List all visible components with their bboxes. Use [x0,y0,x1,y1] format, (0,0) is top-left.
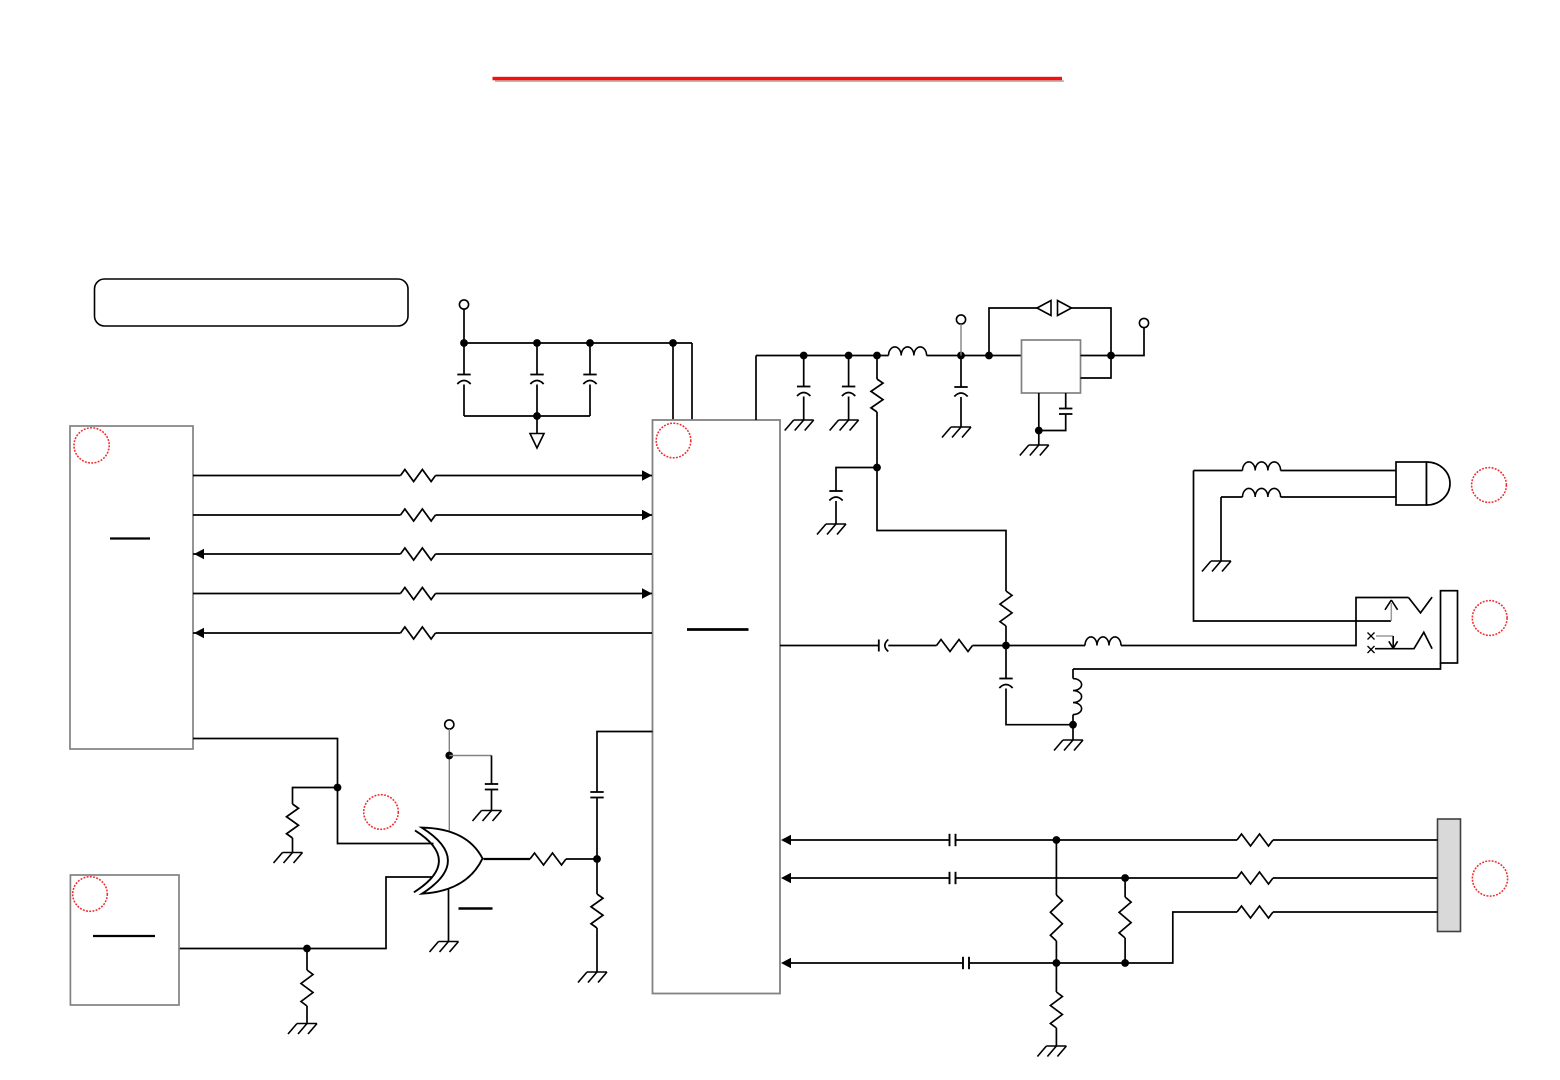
wire [436,514,653,516]
title underline shadow [495,80,1064,82]
wire rail to IC pin [755,356,757,421]
wire [1055,963,1057,992]
red marker circle P1 [1472,861,1507,896]
switch arrow up [1385,600,1398,621]
wire bottom rail [464,415,590,417]
IC U1 [653,420,781,994]
wire [888,645,936,647]
node dot [533,339,541,347]
wire [1124,938,1126,963]
wire [1273,877,1438,879]
wire [491,756,493,785]
wire signal 1 [193,475,401,477]
switch arrow down [1389,636,1398,648]
red marker circle J1 [1472,601,1507,636]
xor gate U5 [414,828,483,894]
wire [1072,725,1074,740]
ground [439,941,459,943]
capacitor C5 [842,386,855,388]
wire [1005,626,1007,646]
wire [306,949,308,971]
wire [803,356,805,387]
node dot [334,784,342,792]
wire signal 2 [193,514,401,516]
wire line3 [790,962,963,964]
U2 label line [110,537,150,539]
resistor R9 [1237,834,1273,846]
wire speaker+ [1194,470,1243,472]
title underline (red) [493,77,1063,81]
jack tip contact [1409,597,1433,613]
node dot A [1002,642,1010,650]
wire [436,593,653,595]
jack ring contact [1375,632,1432,648]
wire [491,790,493,811]
arrowhead into U2 [194,549,204,559]
wire [1220,497,1222,561]
diode D2 [1058,301,1072,316]
wire [973,645,1086,647]
resistor R12 [1050,895,1062,941]
wire [536,416,538,434]
wire [449,755,491,757]
node dot [1053,836,1061,844]
node dot [873,464,881,472]
wire [848,397,850,421]
resistor R12 [401,509,436,521]
wire [1055,840,1057,895]
wire audio out [780,645,879,647]
capacitor C11 [485,783,498,785]
node dot [1069,721,1077,729]
node dot [1035,427,1043,435]
ground [1046,1045,1066,1047]
node dot [669,339,677,347]
wire feedback [1081,356,1112,379]
note box (empty annotation) [95,279,409,326]
red marker circle SP1 [1472,468,1507,503]
wire [463,343,465,374]
wire [1281,470,1397,472]
connector P1 [1438,819,1461,932]
wire [1072,715,1074,725]
wire [436,475,653,477]
node dot [845,352,853,360]
resistor R11 [401,470,436,482]
capacitor C13 [949,834,951,846]
wire [1072,669,1074,679]
wire power rail [464,342,692,344]
node dot [957,352,965,360]
resistor R14 [401,588,436,600]
wire [970,912,1238,963]
U4 label line [93,935,155,937]
arrowhead into U1 [642,510,652,520]
resistor R10 [1237,872,1273,884]
capacitor C9 [878,640,880,652]
capacitor C15 [962,957,964,969]
node dot [1107,352,1115,360]
wire [1006,689,1073,725]
wire [876,412,878,468]
wire [596,928,598,972]
ground [839,419,859,421]
resistor R2 [871,379,883,412]
inductor L5 [1073,679,1082,715]
capacitor C14 [949,872,951,884]
wire [1072,308,1112,356]
U1 label line [687,628,749,631]
wire [589,343,591,374]
capacitor C10 [999,678,1012,680]
resistor R3 [1000,591,1012,626]
wire [876,356,878,380]
red marker circle U1 [656,423,691,458]
capacitor C3 [583,374,596,376]
resistor R5 [287,804,299,838]
node dot [1053,959,1061,967]
wire tip line [1121,598,1409,646]
wire signal 3 [193,553,401,555]
wire [1376,635,1393,637]
resistor R11 [1237,906,1273,918]
resistor R7 [530,853,566,865]
wire [436,632,653,634]
arrowhead into U1 [781,873,791,883]
node dot [1121,874,1129,882]
wire [596,798,598,860]
wire [848,356,850,387]
wire [589,385,591,417]
arrowhead into U1 [642,588,652,598]
resistor R4 [937,640,973,652]
wire [1065,393,1067,409]
wire [448,729,450,834]
wire [306,1006,308,1024]
inductor L1 (ferrite bead) [889,347,927,356]
node dot [303,945,311,953]
resistor R15 [401,627,436,639]
wire speaker- [1221,496,1243,498]
capacitor C12 [590,791,603,793]
wire [960,397,962,427]
wire [436,553,653,555]
wire [292,838,294,853]
wire line1 [790,839,950,841]
wire [463,385,465,417]
wire [536,343,538,374]
capacitor C7 [954,386,967,388]
wire shunt cap [1005,646,1007,679]
wire [566,858,597,860]
arrowhead into U1 [642,470,652,480]
wire [1124,878,1126,897]
capacitor C2 [530,374,543,376]
wire from U2 [193,739,434,844]
wire [1281,496,1397,498]
wire AVDD to IC [672,343,674,420]
red marker circle U4 [73,877,108,912]
resistor R8 [591,894,603,928]
node dot [985,352,993,360]
wire [463,309,465,343]
wire [1039,414,1066,431]
resistor R13 [401,548,436,560]
wire to node A [877,468,1006,592]
wire gate out [484,858,531,860]
terminal VDD1 [459,300,468,309]
wire rail out [1081,328,1145,356]
switch mark x2 [1368,646,1375,653]
red marker circle U2 [74,428,109,463]
wire DVDD to IC [691,343,693,420]
ground [1211,560,1231,562]
wire [803,397,805,421]
wire detect line [1194,471,1392,622]
wire line2 [790,877,950,879]
wire [956,877,1238,879]
red marker circle G1 [364,795,399,830]
capacitor C6 [829,490,842,492]
U5 label line [459,907,493,909]
ground [794,419,814,421]
ground (digital) [530,434,544,449]
arrowhead into U1 [781,835,791,845]
inductor L2 [1243,462,1281,471]
inductor L4 [1085,637,1121,646]
wire [1273,839,1438,841]
ground [482,810,502,812]
terminal VDD3 [445,720,454,729]
wire [1055,1028,1057,1046]
ground [826,523,846,525]
wire [1055,941,1057,963]
ground [951,426,971,428]
regulator U3 [1022,340,1081,393]
node dot [593,855,601,863]
block U2 [70,426,193,749]
ground [1029,444,1049,446]
diode D1 [1037,301,1051,316]
wire [960,356,962,387]
ground [297,1023,317,1025]
resistor R14 [1050,992,1062,1028]
wire signal 5 [193,632,401,634]
wire [836,468,877,491]
node dot [533,412,541,420]
wire power rail 2 [756,355,889,357]
capacitor C8 [1059,408,1072,410]
wire gate gnd [448,890,450,942]
capacitor C1 [457,374,470,376]
wire [293,788,338,805]
node dot [586,339,594,347]
wire to U1 [597,732,653,793]
wire [1273,911,1438,913]
wire [927,355,1022,357]
arrowhead into U2 [194,628,204,638]
node dot [1121,959,1129,967]
resistor R13 [1119,897,1131,938]
wire [956,839,1238,841]
wire [536,385,538,417]
wire sleeve line [1073,663,1441,669]
speaker SP1 [1396,462,1450,505]
wire [596,859,598,894]
wire regulator gnd [1038,393,1040,445]
wire signal 4 [193,593,401,595]
ground [587,971,607,973]
ground [283,852,303,854]
wire from U4 [179,877,433,949]
node dot [460,339,468,347]
inductor L3 [1243,488,1281,497]
arrowhead into U1 [781,958,791,968]
resistor R6 [301,970,313,1006]
block U4 [70,875,179,1005]
switch mark x1 [1368,633,1375,640]
node dot [800,352,808,360]
wire [835,501,837,524]
capacitor C4 [797,386,810,388]
wire diode branch [989,308,1037,356]
terminal VOUT [1139,318,1148,327]
node dot [445,752,453,760]
wire [960,324,962,356]
node dot [873,352,881,360]
jack body J1 [1441,591,1458,663]
ground [1063,739,1083,741]
terminal VCC2 [956,315,965,324]
